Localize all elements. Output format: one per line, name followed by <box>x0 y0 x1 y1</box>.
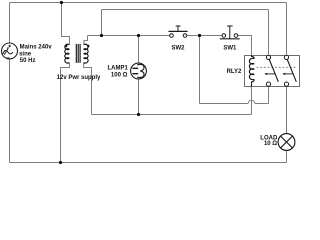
svg-text:sine: sine <box>19 51 32 57</box>
svg-text:100 Ω: 100 Ω <box>111 73 128 79</box>
svg-text:SW2: SW2 <box>171 46 185 52</box>
svg-text:50 Hz: 50 Hz <box>20 58 36 64</box>
svg-text:Mains 240v: Mains 240v <box>20 45 53 51</box>
svg-text:12v Pwr supply: 12v Pwr supply <box>57 75 101 81</box>
svg-text:10 Ω: 10 Ω <box>264 141 277 147</box>
svg-text:LAMP1: LAMP1 <box>107 66 128 72</box>
svg-text:SW1: SW1 <box>223 46 237 52</box>
svg-text:RLY2: RLY2 <box>227 69 242 75</box>
